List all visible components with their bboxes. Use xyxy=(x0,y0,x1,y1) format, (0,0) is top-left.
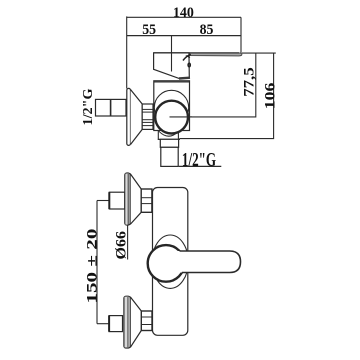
top flange plate xyxy=(125,173,130,225)
top inlet block xyxy=(109,192,125,209)
svg-text:77,5: 77,5 xyxy=(242,67,258,97)
top inlet block left edge (thick) xyxy=(108,192,110,209)
flange cone (side view) xyxy=(131,90,143,145)
extension line top connection xyxy=(97,200,109,202)
dimension line 150±20 xyxy=(96,201,98,324)
rear circle (body behind, side view) xyxy=(154,90,188,124)
outlet upper band xyxy=(160,139,178,147)
body top seam xyxy=(154,81,190,83)
svg-text:140: 140 xyxy=(173,5,194,21)
underline of 1/2"G xyxy=(179,165,222,167)
extension line tail over cartridge xyxy=(171,53,173,72)
top flange plate inner line xyxy=(127,174,129,225)
bottom flange plate inner line xyxy=(127,297,129,347)
centerline through valve center xyxy=(170,116,193,118)
leader line of Ø66 xyxy=(127,226,129,260)
dimension line 140 xyxy=(127,16,241,18)
lever front tip hook xyxy=(183,54,191,60)
escutcheon ellipse Ø66 xyxy=(152,235,188,288)
outlet pipe 1/2"G xyxy=(161,147,178,166)
svg-text:1/2"G: 1/2"G xyxy=(80,88,95,126)
svg-text:85: 85 xyxy=(200,22,214,38)
dimension line 77,5 xyxy=(190,53,256,117)
nipple divider xyxy=(110,99,112,116)
cartridge bottom seam (dark) xyxy=(179,76,190,79)
bottom mounting nut xyxy=(141,311,152,331)
cartridge housing (quad) xyxy=(154,53,190,79)
bottom nut band lines xyxy=(141,316,152,318)
svg-text:106: 106 xyxy=(262,82,278,109)
top nut band lines xyxy=(141,197,152,199)
lever top edge line xyxy=(154,52,239,54)
outlet collar bottom line xyxy=(158,138,180,140)
bottom flange plate xyxy=(124,296,130,348)
svg-text:1/2"G: 1/2"G xyxy=(182,149,216,171)
bottom flange cone xyxy=(130,297,141,348)
lever handle bar (side view) xyxy=(190,53,242,56)
indicator knob on cartridge edge xyxy=(188,63,190,67)
ribbed connector (side view) xyxy=(142,104,153,129)
handle base circle (thick) xyxy=(148,245,185,282)
bottom inlet block left edge (thick) xyxy=(108,316,110,332)
valve body block (side view) xyxy=(154,81,190,131)
svg-text:150 ± 20: 150 ± 20 xyxy=(85,229,101,304)
extension line divider 55/85 xyxy=(171,36,173,53)
svg-text:55: 55 xyxy=(142,22,156,38)
dimension line 55/85 xyxy=(127,35,241,37)
dimension line 106 xyxy=(179,53,273,139)
front escutcheon circle (thick, side view) xyxy=(155,101,188,134)
top mounting nut xyxy=(141,189,152,212)
lever capsule (front view) xyxy=(166,251,241,273)
extension line top right (deck level) xyxy=(242,52,276,54)
outlet collar (neck) xyxy=(158,131,178,140)
wall flange plate (side view) xyxy=(127,88,131,145)
bottom inlet block xyxy=(109,316,122,332)
extension line bottom connection xyxy=(97,323,109,325)
body column (front view) xyxy=(153,188,188,336)
rib lines xyxy=(142,108,153,110)
extension line right (lever end) xyxy=(240,17,242,53)
extension line left (wall plane) xyxy=(126,16,128,88)
bottom flange plate shading xyxy=(125,297,129,348)
ball joint arc in outlet collar xyxy=(159,131,178,136)
top flange plate shading xyxy=(125,174,128,225)
inlet nipple 1/2"G (side view) xyxy=(96,99,127,116)
top flange cone xyxy=(130,174,141,225)
